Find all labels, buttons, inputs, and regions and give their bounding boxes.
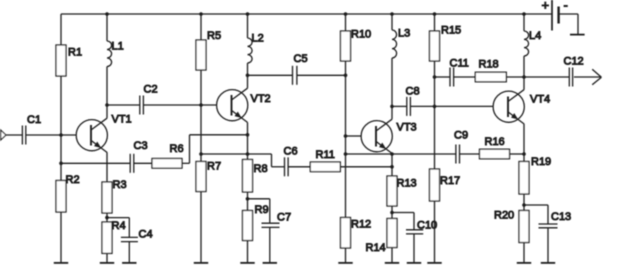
svg-text:R2: R2 [66, 174, 80, 186]
svg-text:C3: C3 [134, 140, 148, 152]
svg-text:C2: C2 [144, 84, 158, 96]
svg-text:C7: C7 [277, 212, 291, 224]
svg-text:-: - [564, 0, 568, 13]
svg-text:R1: R1 [68, 46, 82, 58]
svg-text:VT3: VT3 [397, 122, 417, 134]
svg-text:R16: R16 [485, 136, 505, 148]
svg-text:R7: R7 [207, 161, 221, 173]
svg-text:C1: C1 [27, 114, 41, 126]
svg-text:R5: R5 [207, 30, 221, 42]
svg-text:C11: C11 [450, 57, 469, 69]
svg-text:R13: R13 [397, 177, 417, 189]
svg-text:C6: C6 [284, 146, 298, 158]
svg-text:VT4: VT4 [530, 94, 550, 106]
svg-text:R15: R15 [441, 25, 461, 37]
svg-text:L1: L1 [112, 41, 124, 53]
svg-text:C5: C5 [294, 53, 308, 65]
svg-text:C4: C4 [139, 229, 153, 241]
svg-text:R8: R8 [254, 163, 268, 175]
svg-text:C8: C8 [406, 86, 420, 98]
svg-text:R11: R11 [316, 149, 335, 161]
svg-text:VT2: VT2 [251, 93, 271, 105]
svg-text:VT1: VT1 [112, 114, 132, 126]
svg-text:R12: R12 [351, 218, 371, 230]
svg-text:L4: L4 [529, 30, 541, 42]
svg-text:R18: R18 [479, 59, 499, 71]
svg-text:C13: C13 [551, 211, 571, 223]
svg-text:R14: R14 [366, 242, 386, 254]
svg-text:L2: L2 [252, 33, 264, 45]
svg-text:R3: R3 [113, 179, 127, 191]
svg-text:R10: R10 [351, 28, 371, 40]
svg-text:C12: C12 [564, 56, 584, 68]
svg-text:R20: R20 [494, 209, 514, 221]
svg-text:+: + [542, 0, 550, 13]
svg-text:R4: R4 [112, 220, 126, 232]
svg-text:R19: R19 [531, 156, 551, 168]
svg-text:R17: R17 [440, 175, 460, 187]
svg-text:R9: R9 [255, 204, 269, 216]
svg-text:L3: L3 [398, 28, 410, 40]
svg-text:C9: C9 [454, 129, 468, 141]
svg-text:R6: R6 [170, 143, 184, 155]
